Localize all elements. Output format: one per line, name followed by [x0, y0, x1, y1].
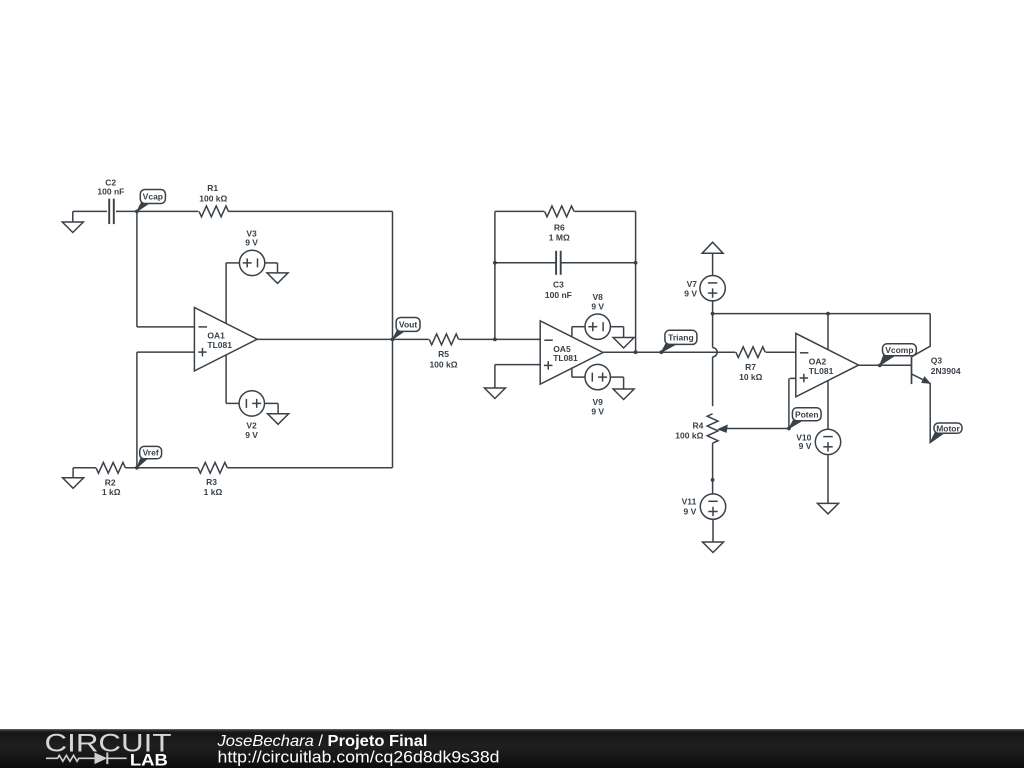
svg-text:LAB: LAB — [130, 751, 168, 768]
svg-text:http://circuitlab.com/cq26d8dk: http://circuitlab.com/cq26d8dk9s38d — [218, 749, 500, 767]
svg-text:Vcap: Vcap — [143, 192, 163, 202]
svg-text:TL081: TL081 — [207, 340, 232, 350]
svg-text:1 kΩ: 1 kΩ — [204, 487, 223, 497]
svg-text:JoseBechara / Projeto Final: JoseBechara / Projeto Final — [216, 733, 427, 750]
svg-text:Motor: Motor — [936, 423, 960, 433]
svg-text:9 V: 9 V — [591, 406, 604, 416]
svg-text:1 MΩ: 1 MΩ — [549, 232, 570, 242]
svg-text:Vref: Vref — [143, 448, 159, 458]
svg-text:Poten: Poten — [795, 409, 819, 419]
svg-text:100 kΩ: 100 kΩ — [429, 359, 457, 369]
svg-text:R2: R2 — [105, 478, 116, 488]
svg-text:Q3: Q3 — [931, 356, 943, 366]
svg-text:9 V: 9 V — [591, 301, 604, 311]
svg-text:100 nF: 100 nF — [545, 290, 572, 300]
svg-text:R4: R4 — [693, 420, 704, 430]
svg-text:Triang: Triang — [668, 332, 694, 342]
svg-text:10 kΩ: 10 kΩ — [739, 372, 763, 382]
svg-text:9 V: 9 V — [684, 288, 697, 298]
svg-text:100 kΩ: 100 kΩ — [199, 193, 227, 203]
svg-text:9 V: 9 V — [684, 506, 697, 516]
svg-text:R6: R6 — [554, 223, 565, 233]
svg-text:R1: R1 — [207, 183, 218, 193]
svg-text:Vcomp: Vcomp — [885, 345, 913, 355]
svg-text:2N3904: 2N3904 — [931, 366, 961, 376]
svg-text:9 V: 9 V — [245, 430, 258, 440]
svg-text:TL081: TL081 — [809, 366, 834, 376]
svg-text:V11: V11 — [682, 496, 697, 506]
svg-text:100 nF: 100 nF — [97, 187, 124, 197]
svg-text:Vout: Vout — [399, 320, 417, 330]
svg-text:TL081: TL081 — [553, 353, 578, 363]
svg-text:100 kΩ: 100 kΩ — [675, 430, 703, 440]
svg-text:R5: R5 — [438, 349, 449, 359]
svg-text:R7: R7 — [745, 362, 756, 372]
svg-text:9 V: 9 V — [245, 238, 258, 248]
svg-text:9 V: 9 V — [799, 441, 812, 451]
svg-text:1 kΩ: 1 kΩ — [102, 487, 121, 497]
svg-text:C3: C3 — [553, 280, 564, 290]
svg-text:R3: R3 — [206, 477, 217, 487]
